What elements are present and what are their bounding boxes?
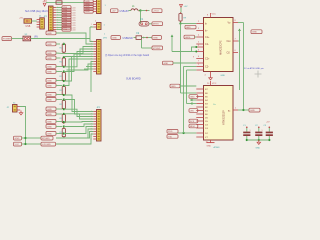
svg-text:TXD: TXD — [168, 136, 173, 138]
svg-text:MTGND: MTGND — [42, 138, 50, 140]
svg-text:LCDGND: LCDGND — [42, 144, 51, 146]
svg-text:MISO: MISO — [190, 126, 196, 128]
svg-text:GND: GND — [85, 11, 90, 13]
svg-text:USB: USB — [26, 26, 31, 28]
svg-text:+5V: +5V — [112, 11, 116, 13]
svg-text:In-: In- — [205, 29, 208, 32]
svg-text:GND: GND — [171, 86, 176, 88]
svg-text:GND: GND — [164, 63, 169, 65]
svg-text:LCD: LCD — [72, 30, 76, 32]
svg-text:GND: GND — [47, 53, 52, 55]
svg-text:GND: GND — [207, 146, 212, 148]
svg-text:GND: GND — [256, 148, 261, 150]
svg-text:SCK: SCK — [190, 121, 195, 123]
svg-text:POWER: POWER — [3, 39, 11, 41]
svg-text:GND: GND — [47, 133, 52, 135]
svg-text:AT90S2313P: AT90S2313P — [223, 110, 226, 125]
svg-text:GND: GND — [47, 94, 52, 96]
svg-text:RXD: RXD — [168, 131, 173, 133]
svg-text:MAX232CPE: MAX232CPE — [220, 40, 223, 55]
svg-text:C1-: C1- — [205, 43, 209, 46]
svg-text:C2+: C2+ — [205, 57, 210, 60]
svg-text:VCC: VCC — [212, 83, 217, 85]
svg-text:AT90S: AT90S — [214, 146, 221, 149]
svg-text:GND: GND — [186, 27, 191, 29]
svg-text:GND: GND — [153, 38, 158, 40]
svg-text:GND: GND — [47, 85, 52, 87]
svg-text:GND: GND — [252, 32, 257, 34]
svg-text:USB+5V: USB+5V — [120, 10, 130, 13]
svg-text:+5V: +5V — [19, 18, 23, 20]
svg-text:1: 1 — [250, 130, 251, 132]
svg-text:GNDL: GNDL — [185, 37, 192, 39]
svg-text:MTGND: MTGND — [153, 48, 161, 50]
svg-text:VCC: VCC — [15, 144, 20, 146]
svg-text:GND: GND — [47, 71, 52, 73]
svg-text:USBGND: USBGND — [123, 37, 134, 40]
svg-text:GND: GND — [47, 126, 52, 128]
svg-text:GND: GND — [47, 66, 52, 68]
svg-text:GND: GND — [221, 75, 226, 77]
svg-text:GND: GND — [47, 58, 52, 60]
svg-text:GND: GND — [47, 33, 52, 35]
svg-text:GND: GND — [47, 99, 52, 101]
svg-text:Out: Out — [227, 40, 231, 43]
svg-text:GND: GND — [47, 80, 52, 82]
svg-text:VIN: VIN — [34, 37, 38, 39]
svg-text:C2-: C2- — [205, 65, 209, 68]
svg-text:VCC: VCC — [212, 14, 217, 16]
svg-text:SUB BOARD: SUB BOARD — [126, 78, 141, 81]
svg-text:(!) Open one leg of R42 or the: (!) Open one leg of R42 or the logic boa… — [105, 54, 150, 57]
svg-text:LED: LED — [190, 110, 195, 112]
svg-text:C1+: C1+ — [205, 36, 210, 39]
svg-text:GND: GND — [250, 110, 255, 112]
svg-text:+5VU: +5VU — [153, 11, 159, 13]
svg-text:GND: GND — [190, 96, 195, 98]
svg-text:5V at AT90 GND pin: 5V at AT90 GND pin — [244, 67, 264, 70]
svg-text:GND: GND — [47, 121, 52, 123]
svg-text:GND: GND — [47, 114, 52, 116]
svg-text:GND: GND — [15, 138, 20, 140]
svg-text:GND: GND — [47, 44, 52, 46]
svg-text:GND: GND — [47, 109, 52, 111]
svg-text:GND: GND — [112, 38, 117, 40]
svg-text:+5V: +5V — [184, 6, 188, 8]
svg-text:1: 1 — [262, 130, 263, 132]
svg-text:MT5V: MT5V — [153, 24, 159, 26]
